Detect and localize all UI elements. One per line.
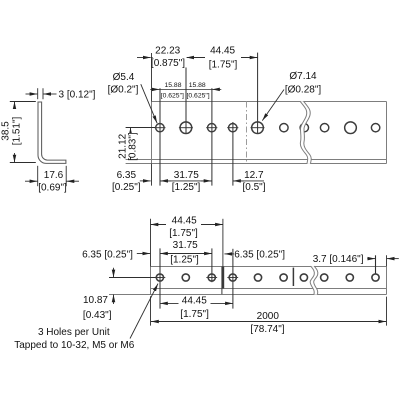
top view bend line (extends left for dim): [126, 159, 387, 161]
svg-text:[Ø0.28"]: [Ø0.28"]: [285, 84, 322, 95]
svg-text:6.35 [0.25"]: 6.35 [0.25"]: [234, 250, 285, 261]
dim line 22.23: [151, 57, 186, 59]
dash-dot centerline x=246.5: [246, 102, 248, 164]
svg-text:[1.75"]: [1.75"]: [209, 59, 238, 70]
svg-text:10.87: 10.87: [83, 295, 108, 306]
hole x=211.75: [208, 124, 216, 132]
dim 10.87 up arrow: [113, 295, 115, 305]
svg-text:[0.875"]: [0.875"]: [151, 58, 185, 69]
dim 22.23 left outside arrow: [137, 57, 151, 59]
tapped hole x=258.0: [254, 274, 261, 281]
hole x=304.3: [300, 124, 308, 132]
svg-text:17.6: 17.6: [44, 170, 64, 181]
tapped hole x=283.6: [280, 274, 287, 281]
centerline hole2: [185, 53, 187, 134]
dim 3.7 [0.146"]: [367, 258, 375, 260]
hole x=283.9: [280, 124, 288, 132]
svg-text:15.88: 15.88: [189, 82, 206, 89]
centerline hole4 bottom: [232, 249, 234, 309]
centerline hole3 bottom: [211, 248, 213, 282]
svg-text:[1.25"]: [1.25"]: [172, 182, 201, 193]
svg-text:[0.5"]: [0.5"]: [242, 182, 265, 193]
bottom view upper 44.45 ext left: [150, 219, 152, 267]
bottom view bend line: [151, 288, 387, 290]
svg-text:[1.75"]: [1.75"]: [169, 228, 198, 239]
height dim 38.5 extension lines: [10, 101, 36, 103]
hole x=324.6: [320, 124, 328, 132]
hole x=257.5: [252, 122, 264, 134]
dim 44.45 lower: [160, 302, 233, 304]
centerline hole3: [211, 88, 213, 185]
centerline hole4: [232, 122, 234, 186]
break: white band + squiggles (top view): [300, 101, 311, 164]
svg-text:3 Holes per Unit: 3 Holes per Unit: [38, 327, 110, 338]
svg-text:12.7: 12.7: [244, 170, 264, 181]
dim line 44.45 with arrows: [186, 57, 257, 59]
tapped hole x=303.9: [300, 274, 307, 281]
crosshair: [251, 127, 265, 129]
break band + squiggles (bottom view): [310, 266, 318, 295]
crosshair: [155, 277, 166, 279]
hole x=375.6: [371, 124, 379, 132]
hole x=159.9: [156, 124, 164, 132]
dim 6.35 left (bottom view): [137, 253, 150, 255]
tapped hole x=349.8: [346, 274, 353, 281]
svg-text:[0.43"]: [0.43"]: [83, 310, 112, 321]
dim 31.75 bottom view: [160, 253, 212, 255]
height dim line: [14, 102, 16, 163]
unit tick line: [292, 268, 294, 286]
joint ext line: [222, 219, 224, 267]
joint thin lower part: [221, 289, 223, 295]
bottom dim chain of top view, y=180.7: [140, 180, 151, 182]
svg-text:[Ø0.2"]: [Ø0.2"]: [108, 85, 139, 96]
crosshair: [206, 127, 217, 129]
svg-text:6.35 [0.25"]: 6.35 [0.25"]: [82, 249, 133, 260]
thickness dim 3 [0.12"] ticks: [37, 88, 39, 99]
crosshair: [227, 277, 238, 279]
svg-text:[1.75"]: [1.75"]: [180, 309, 209, 320]
svg-text:[0.25"]: [0.25"]: [112, 182, 141, 193]
svg-text:15.88: 15.88: [164, 82, 181, 89]
tapped hole x=232.75: [229, 274, 236, 281]
hole x=185.9: [180, 122, 192, 134]
L angle cross-section outline: [38, 102, 66, 163]
top view bar outline: [152, 101, 387, 103]
centerline hole5: [257, 53, 259, 134]
svg-text:[1.25"]: [1.25"]: [170, 255, 199, 266]
crosshair: [227, 127, 238, 129]
svg-text:Tapped to 10-32, M5 or M6: Tapped to 10-32, M5 or M6: [14, 340, 135, 351]
dim 10.87 down arrow: [113, 268, 115, 278]
tapped hole x=375.5: [372, 274, 379, 281]
leader dia7.14: [262, 90, 284, 121]
top view bottom edge (extends left for dim): [126, 163, 387, 165]
svg-text:[0.625"]: [0.625"]: [161, 93, 184, 100]
svg-text:Ø7.14: Ø7.14: [289, 71, 317, 82]
thickness dim arrows: [26, 93, 38, 95]
crosshair: [154, 127, 165, 129]
tapped hole x=211.75: [208, 274, 215, 281]
hole centerline ext (10.87 dim): [109, 277, 156, 279]
leader dia5.4: [141, 84, 157, 123]
svg-text:[0.83"]: [0.83"]: [127, 132, 138, 161]
tapped hole x=159.9: [156, 274, 163, 281]
width dim 17.6 extension lines: [37, 166, 39, 186]
hole x=350.5: [345, 122, 357, 134]
svg-text:31.75: 31.75: [173, 240, 198, 251]
bottom view outline: [151, 266, 387, 268]
tapped hole x=324.2: [321, 274, 328, 281]
centerline hole1 bottom: [159, 248, 161, 308]
ext line bar left edge up: [151, 53, 153, 102]
dim 6.35 right (bottom view): [224, 253, 234, 255]
svg-text:2000: 2000: [257, 311, 280, 322]
svg-text:[0.625"]: [0.625"]: [186, 93, 209, 100]
dim 2000 [78.74"]: [151, 321, 386, 323]
svg-text:3 [0.12"]: 3 [0.12"]: [59, 90, 96, 101]
svg-text:3.7 [0.146"]: 3.7 [0.146"]: [313, 254, 364, 265]
svg-text:[0.69"]: [0.69"]: [38, 182, 67, 193]
svg-text:22.23: 22.23: [155, 46, 180, 57]
ext line bar left edge down: [151, 164, 153, 186]
dim 44.45 upper: [151, 224, 223, 226]
svg-text:Ø5.4: Ø5.4: [113, 72, 135, 83]
bottom view bottom edge (extends left for 10.87 dim): [109, 294, 387, 296]
tapped hole x=185.8: [182, 274, 189, 281]
crosshair: [179, 127, 193, 129]
joint thick line: [221, 267, 224, 289]
svg-text:31.75: 31.75: [174, 170, 199, 181]
svg-text:6.35: 6.35: [117, 170, 137, 181]
width dim arrows: [25, 180, 37, 182]
svg-text:44.45: 44.45: [210, 46, 235, 57]
svg-text:[1.51"]: [1.51"]: [12, 116, 23, 145]
vertical dim 21.12: [130, 128, 132, 160]
hole centerline extension (left, y=128): [126, 127, 156, 129]
svg-text:38.5: 38.5: [0, 121, 11, 141]
crosshair: [206, 277, 217, 279]
centerline last hole: [375, 255, 377, 273]
svg-text:44.45: 44.45: [182, 295, 207, 306]
leader 3 holes note: [130, 284, 158, 339]
svg-text:[78.74"]: [78.74"]: [250, 324, 284, 335]
dim 15.88 pair, y=89.3: [150, 88, 159, 90]
hole x=232.75: [229, 124, 237, 132]
2000 dim ext lines: [150, 296, 152, 325]
svg-text:44.45: 44.45: [172, 215, 197, 226]
centerline hole1: [159, 88, 161, 185]
